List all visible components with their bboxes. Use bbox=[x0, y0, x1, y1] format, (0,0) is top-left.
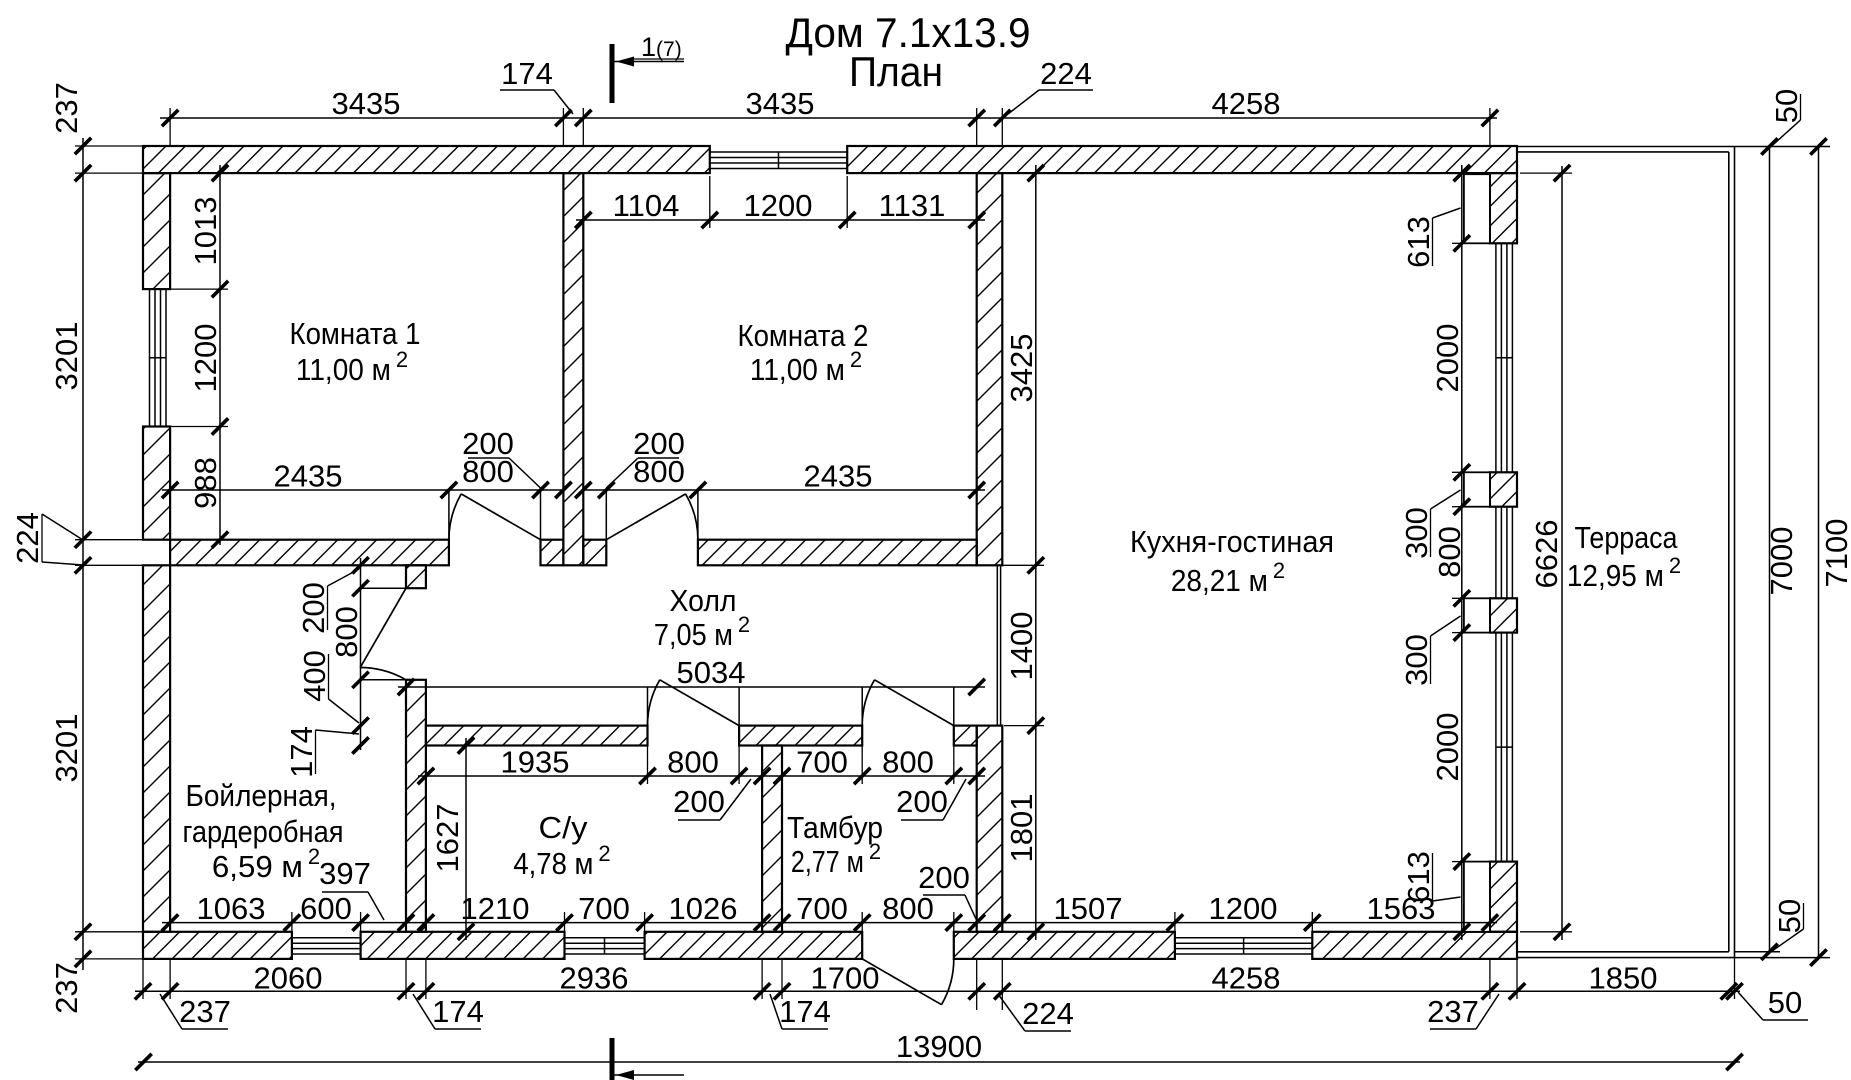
bottom inner chain tick x=564.5 bbox=[556, 914, 572, 930]
boiler door vertical chain line bbox=[360, 558, 362, 750]
kitchen left chain tick y=725.6 bbox=[1028, 717, 1044, 733]
window left wall 1200 bbox=[149, 289, 151, 426]
svg-text:4258: 4258 bbox=[1212, 961, 1281, 996]
terrace bottom extension line upper bbox=[1735, 951, 1781, 953]
room2 window chain tick x=709.8 bbox=[702, 212, 718, 228]
tick 7000 line bottom bbox=[1761, 944, 1777, 960]
svg-text:200: 200 bbox=[296, 582, 331, 634]
bottom outer chain tick x=425.9 bbox=[418, 983, 434, 999]
exterior bottom wall seg 5 (kitchen window-right) bbox=[1312, 932, 1517, 959]
door tambur exterior swing arc bbox=[942, 959, 954, 1005]
S/U height chain line bbox=[465, 738, 467, 940]
svg-text:3201: 3201 bbox=[49, 714, 84, 783]
svg-text:1935: 1935 bbox=[501, 745, 570, 780]
window kitchen right 2000 lower divider bbox=[1496, 746, 1513, 748]
bottom inner chain tick x=406 bbox=[398, 914, 414, 930]
interior middle wall segment B (room2/holl-kitchen) bbox=[698, 540, 977, 566]
svg-text:1026: 1026 bbox=[669, 891, 738, 926]
top chain tick x=583.3 bbox=[575, 110, 591, 126]
svg-text:2936: 2936 bbox=[560, 961, 629, 996]
bottom outer chain tick x=1517 bbox=[1509, 983, 1525, 999]
house right wall bottom column 613 bbox=[1490, 862, 1517, 932]
door tambur-inner leaf bbox=[874, 680, 953, 726]
door boiler jamb lines bbox=[361, 587, 407, 589]
left chain tick y=539.7 bbox=[75, 532, 91, 548]
door tambur exterior leaf bbox=[862, 959, 941, 1005]
boiler chain tick y=745.5 bbox=[352, 737, 368, 753]
terrace bottom wall inner line bbox=[1517, 951, 1729, 953]
right wall lower 300 column inner face box bbox=[1464, 598, 1490, 632]
right window chain tick y=598.3 bbox=[1454, 590, 1470, 606]
svg-text:988: 988 bbox=[188, 457, 223, 509]
svg-text:1104: 1104 bbox=[613, 188, 680, 223]
svg-text:800: 800 bbox=[462, 454, 514, 489]
interior middle wall stub left of room2 door bbox=[583, 540, 606, 566]
bottom outer chain tick x=1728.8 bbox=[1721, 983, 1737, 999]
left window chain tick y=173.1 bbox=[212, 165, 228, 181]
bottom inner chain tick x=1174.9 bbox=[1167, 914, 1183, 930]
svg-text:4258: 4258 bbox=[1212, 86, 1281, 121]
svg-text:Бойлерная,: Бойлерная, bbox=[186, 778, 337, 813]
top chain extension lines bbox=[169, 108, 171, 146]
window S/U bottom divider bbox=[604, 938, 606, 954]
left chain extension lines bbox=[75, 145, 143, 147]
section mark top arrow line bbox=[614, 61, 684, 63]
svg-text:174: 174 bbox=[779, 994, 831, 1029]
exterior bottom wall seg 3 (S/U-tambur) bbox=[645, 932, 863, 959]
svg-text:1210: 1210 bbox=[461, 891, 530, 926]
svg-text:Комната 1: Комната 1 bbox=[290, 316, 421, 351]
left chain tick y=565.3 bbox=[75, 557, 91, 573]
right window chain tick y=472.3 bbox=[1454, 464, 1470, 480]
svg-text:1627: 1627 bbox=[430, 804, 465, 873]
svg-text:1700: 1700 bbox=[811, 961, 880, 996]
left window chain tick y=289.1 bbox=[212, 281, 228, 297]
bottom inner chain tick x=1489.9 bbox=[1482, 914, 1498, 930]
svg-text:6626: 6626 bbox=[1529, 520, 1564, 589]
bottom outer chain tick x=1489.9 bbox=[1482, 983, 1498, 999]
S/U-tambur doors chain tick x=862.2 bbox=[854, 768, 870, 784]
exterior top wall left part (rooms 1-2) bbox=[143, 146, 710, 173]
left window chain tick y=426.5 bbox=[212, 418, 228, 434]
room2 window chain tick x=976.7 bbox=[969, 212, 985, 228]
bottom outer chain tick x=782 bbox=[774, 983, 790, 999]
svg-text:1801: 1801 bbox=[1004, 794, 1039, 863]
boiler chain tick y=565.3 bbox=[352, 557, 368, 573]
room2 door dim line 2435 bbox=[583, 489, 985, 491]
svg-text:3435: 3435 bbox=[332, 86, 401, 121]
boiler chain tick y=588.2 bbox=[352, 580, 368, 596]
top chain tick x=1489.9 bbox=[1482, 110, 1498, 126]
interior wall S/U/tambur bbox=[762, 746, 782, 932]
svg-text:2060: 2060 bbox=[254, 961, 323, 996]
room1 door dim line 2435 bbox=[162, 489, 563, 491]
S/U top wall bbox=[426, 726, 648, 746]
svg-text:800: 800 bbox=[882, 891, 934, 926]
door tambur-inner swing arc bbox=[862, 680, 874, 726]
section mark top label underline bbox=[633, 58, 684, 60]
holl width dim line 5034 bbox=[398, 686, 985, 688]
left chain tick y=173.1 bbox=[75, 165, 91, 181]
bottom outer dim chain line bbox=[135, 990, 1740, 992]
terrace top dim line bbox=[1735, 146, 1831, 148]
6626 extension lines bbox=[1520, 172, 1572, 174]
svg-text:50: 50 bbox=[1772, 899, 1807, 933]
S/U-tambur doors chain tick x=762.1 bbox=[754, 768, 770, 784]
bottom inner chain tick x=1002.3 bbox=[994, 914, 1010, 930]
top chain tick x=563.4 bbox=[555, 110, 571, 126]
svg-text:1013: 1013 bbox=[188, 197, 223, 266]
section mark top arrowhead bbox=[616, 57, 634, 67]
right wall top column inner face box bbox=[1464, 174, 1490, 243]
door boiler leaf bbox=[360, 588, 406, 667]
svg-text:800: 800 bbox=[633, 454, 685, 489]
door tambur exterior jamb lines bbox=[861, 932, 863, 959]
exterior bottom wall seg 1 (boiler left) bbox=[143, 932, 292, 959]
interior middle wall segment A (room1 bottom) bbox=[170, 540, 449, 566]
svg-text:1200: 1200 bbox=[1209, 891, 1278, 926]
svg-text:224: 224 bbox=[1040, 56, 1092, 91]
svg-text:700: 700 bbox=[796, 891, 848, 926]
svg-text:237: 237 bbox=[179, 994, 231, 1029]
bottom outer chain tick x=762.1 bbox=[754, 983, 770, 999]
svg-text:13900: 13900 bbox=[896, 1029, 982, 1064]
bottom inner chain tick x=953.8 bbox=[946, 914, 962, 930]
exterior left wall below window bbox=[143, 427, 170, 540]
svg-text:800: 800 bbox=[882, 745, 934, 780]
kitchen right window chain line bbox=[1461, 165, 1463, 940]
right wall bottom column inner face box bbox=[1464, 862, 1490, 932]
kitchen left vertical chain line bbox=[1035, 165, 1037, 940]
right wall upper 300 column inner face box bbox=[1464, 472, 1490, 506]
bottom inner chain tick x=425.9 bbox=[418, 914, 434, 930]
svg-text:Холл: Холл bbox=[670, 583, 737, 618]
bottom inner chain tick x=644.6 bbox=[636, 914, 652, 930]
room2 window chain tick x=583.3 bbox=[575, 212, 591, 228]
exterior left wall lower section bbox=[143, 565, 170, 932]
terrace bottom wall outer line bbox=[1517, 957, 1735, 959]
kitchen left chain tick y=931.8 bbox=[1028, 924, 1044, 940]
svg-text:7100: 7100 bbox=[1819, 519, 1851, 588]
bottom inner chain tick x=782 bbox=[774, 914, 790, 930]
bottom outer chain tick x=976.7 bbox=[969, 983, 985, 999]
S/U-tambur doors chain tick x=976.7 bbox=[969, 768, 985, 784]
svg-text:237: 237 bbox=[49, 82, 84, 134]
door S/U jamb lines bbox=[647, 687, 649, 726]
window kitchen right 2000 upper divider bbox=[1496, 357, 1513, 359]
terrace inner height chain line 6626 bbox=[1561, 166, 1563, 940]
right window chain tick y=632.6 bbox=[1454, 624, 1470, 640]
holl-kitchen open portal line 1 bbox=[996, 565, 998, 725]
svg-text:Комната 2: Комната 2 bbox=[738, 318, 869, 353]
svg-text:237: 237 bbox=[1427, 994, 1479, 1029]
svg-text:200: 200 bbox=[673, 784, 725, 819]
window boiler bottom 600 bbox=[292, 937, 361, 939]
bottom inner chain tick x=170.1 bbox=[162, 914, 178, 930]
svg-text:2435: 2435 bbox=[274, 459, 343, 494]
svg-text:1131: 1131 bbox=[879, 188, 946, 223]
svg-text:700: 700 bbox=[796, 745, 848, 780]
svg-text:Кухня-гостиная: Кухня-гостиная bbox=[1130, 524, 1334, 559]
terrace right wall outer line bbox=[1734, 147, 1736, 958]
window kitchen bottom divider bbox=[1243, 938, 1245, 954]
svg-text:7000: 7000 bbox=[1764, 527, 1799, 596]
exterior left wall above window bbox=[143, 173, 170, 289]
right window chain extension lines bbox=[1452, 242, 1468, 244]
door S/U leaf bbox=[660, 680, 739, 726]
svg-text:1400: 1400 bbox=[1004, 612, 1039, 681]
section mark bottom arrow line bbox=[614, 1074, 684, 1076]
S/U-tambur doors chain tick x=425.9 bbox=[418, 768, 434, 784]
svg-text:300: 300 bbox=[1399, 634, 1434, 686]
bottom outer chain extension lines bbox=[142, 960, 144, 999]
boiler chain tick y=679.8 bbox=[352, 672, 368, 688]
tick 7100 line bottom bbox=[1810, 949, 1826, 965]
door S/U swing arc bbox=[648, 680, 660, 726]
svg-text:Терраса: Терраса bbox=[1575, 520, 1679, 555]
terrace top wall outer line bbox=[1517, 146, 1735, 148]
right window chain tick y=243.3 bbox=[1454, 235, 1470, 251]
svg-text:200: 200 bbox=[918, 860, 970, 895]
svg-text:800: 800 bbox=[329, 606, 364, 658]
interior wall tambur/kitchen lower bbox=[977, 726, 1003, 932]
left outer dim chain line bbox=[82, 138, 84, 970]
window S/U bottom 700 bbox=[565, 937, 645, 939]
S/U-tambur doors chain tick x=782.0 bbox=[774, 768, 790, 784]
svg-text:1563: 1563 bbox=[1367, 891, 1436, 926]
svg-text:174: 174 bbox=[432, 994, 484, 1029]
door room2 leaf bbox=[606, 494, 685, 540]
kitchen left chain extension lines bbox=[1004, 172, 1044, 174]
terrace bottom extension line lower bbox=[1735, 957, 1831, 959]
window kitchen bottom 1200 bbox=[1175, 937, 1312, 939]
right window chain tick y=861.6 bbox=[1454, 853, 1470, 869]
door room1 swing arc bbox=[449, 494, 461, 540]
S/U-tambur doors chain tick x=739.1 bbox=[731, 768, 747, 784]
terrace top wall inner line bbox=[1517, 151, 1729, 153]
section mark bottom bar bbox=[610, 1038, 615, 1080]
window kitchen right 800 middle bbox=[1495, 507, 1497, 599]
house right wall top column 613 bbox=[1490, 173, 1517, 243]
holl-kitchen open portal line 2 bbox=[1000, 565, 1002, 725]
svg-text:174: 174 bbox=[284, 726, 319, 778]
S/U tambur doors dim line bbox=[418, 775, 985, 777]
svg-text:200: 200 bbox=[896, 784, 948, 819]
right window chain tick y=506.7 bbox=[1454, 499, 1470, 515]
svg-text:50: 50 bbox=[1769, 89, 1804, 123]
svg-text:613: 613 bbox=[1401, 216, 1436, 268]
room2 window chain line bbox=[576, 219, 985, 221]
S/U door jamb extension lines bbox=[647, 746, 649, 785]
svg-text:2000: 2000 bbox=[1430, 324, 1465, 393]
house right wall middle column 300 lower bbox=[1490, 598, 1517, 632]
left chain tick y=146 bbox=[75, 138, 91, 154]
left chain tick y=931.8 bbox=[75, 924, 91, 940]
svg-text:300: 300 bbox=[1399, 507, 1434, 559]
bottom inner chain tick x=762.1 bbox=[754, 914, 770, 930]
svg-text:1200: 1200 bbox=[744, 188, 813, 223]
interior middle wall stub right of room1 door bbox=[541, 540, 564, 566]
exterior bottom wall seg 4 (tambur-kitchen window) bbox=[954, 932, 1175, 959]
door room1 jamb lines bbox=[448, 490, 450, 540]
S/U-tambur doors chain tick x=953.8 bbox=[946, 768, 962, 784]
svg-text:С/у: С/у bbox=[539, 810, 589, 845]
door room2 swing arc bbox=[686, 494, 698, 540]
bottom outer chain tick x=1734.5 bbox=[1726, 983, 1742, 999]
svg-text:174: 174 bbox=[501, 56, 553, 91]
svg-text:3435: 3435 bbox=[746, 86, 815, 121]
door room1 leaf bbox=[461, 494, 540, 540]
bottom inner chain tick x=360.6 bbox=[352, 914, 368, 930]
room2 window chain extension lines bbox=[709, 176, 711, 228]
tick 7100 line top bbox=[1810, 138, 1826, 154]
bottom outer chain tick x=143 bbox=[135, 983, 151, 999]
kitchen left chain tick y=565.3 bbox=[1028, 557, 1044, 573]
bottom inner chain tick x=862.2 bbox=[854, 914, 870, 930]
svg-text:50: 50 bbox=[1768, 985, 1802, 1020]
7000 dim line right bbox=[1769, 147, 1771, 952]
svg-text:План: План bbox=[849, 48, 943, 95]
7100 dim line right bbox=[1818, 147, 1820, 959]
S/U-tambur top wall stub with tambur left wall head bbox=[739, 726, 862, 746]
bottom inner chain tick x=1312.3 bbox=[1304, 914, 1320, 930]
svg-text:224: 224 bbox=[10, 512, 45, 564]
window kitchen right 2000 lower bbox=[1495, 633, 1497, 862]
right window chain tick y=173.1 bbox=[1454, 165, 1470, 181]
section mark bottom arrowhead bbox=[616, 1070, 634, 1080]
bottom outer chain tick x=170.1 bbox=[162, 983, 178, 999]
interior wall room1/room2 bbox=[563, 173, 583, 565]
S/U-tambur doors chain tick x=647.5 bbox=[639, 768, 655, 784]
door tambur-inner jamb lines bbox=[861, 687, 863, 726]
top dimension chain line bbox=[160, 117, 1497, 119]
bottom inner chain tick x=976.7 bbox=[969, 914, 985, 930]
window left wall divider bbox=[150, 357, 167, 359]
svg-text:600: 600 bbox=[300, 891, 352, 926]
door room2 jamb lines bbox=[605, 490, 607, 540]
window room2 top divider bbox=[778, 152, 780, 169]
kitchen left chain tick y=173.1 bbox=[1028, 165, 1044, 181]
bottom inner chain extension lines bbox=[291, 912, 293, 933]
tick 7000 line top bbox=[1761, 138, 1777, 154]
exterior bottom wall seg 2 (boiler-S/U) bbox=[361, 932, 565, 959]
svg-text:800: 800 bbox=[667, 745, 719, 780]
door boiler swing arc bbox=[360, 668, 406, 680]
svg-text:1200: 1200 bbox=[188, 324, 223, 393]
bottom outer chain tick x=406 bbox=[398, 983, 414, 999]
left window chain extension lines bbox=[168, 288, 228, 290]
bottom outer chain tick x=1002.3 bbox=[994, 983, 1010, 999]
top chain tick x=1002.3 bbox=[994, 110, 1010, 126]
svg-text:800: 800 bbox=[1432, 526, 1467, 578]
room2 window chain tick x=847.2 bbox=[839, 212, 855, 228]
window room2 top 1200 bbox=[710, 151, 847, 153]
svg-text:3425: 3425 bbox=[1004, 334, 1039, 403]
boiler room right wall stub above door bbox=[406, 565, 426, 588]
bottom inner dim chain line bbox=[162, 922, 1497, 924]
svg-text:237: 237 bbox=[49, 962, 84, 1014]
right window chain tick y=931.8 bbox=[1454, 924, 1470, 940]
left window chain line bbox=[219, 165, 221, 545]
svg-text:700: 700 bbox=[578, 891, 630, 926]
section mark top bar bbox=[610, 44, 615, 103]
left chain tick y=958.9 bbox=[75, 951, 91, 967]
bottom inner chain tick x=291.9 bbox=[284, 914, 300, 930]
terrace right wall inner line bbox=[1728, 152, 1730, 952]
svg-text:5034: 5034 bbox=[677, 655, 746, 690]
svg-text:2000: 2000 bbox=[1430, 713, 1465, 782]
svg-text:3201: 3201 bbox=[49, 322, 84, 391]
svg-text:1507: 1507 bbox=[1054, 891, 1123, 926]
svg-text:1850: 1850 bbox=[1589, 961, 1658, 996]
boiler chain tick y=725.6 bbox=[352, 717, 368, 733]
exterior top wall right part (room2-kitchen) bbox=[847, 146, 1517, 173]
svg-text:1063: 1063 bbox=[197, 891, 266, 926]
svg-text:2435: 2435 bbox=[804, 459, 873, 494]
interior wall room2/kitchen upper bbox=[977, 173, 1003, 565]
tambur top wall stub right of door bbox=[954, 726, 977, 746]
window kitchen right 2000 upper bbox=[1495, 243, 1497, 472]
svg-text:397: 397 bbox=[319, 856, 371, 891]
overall dim line 13900 bbox=[138, 1061, 1740, 1063]
top chain tick x=976.7 bbox=[969, 110, 985, 126]
boiler room right wall below door bbox=[406, 680, 426, 932]
svg-text:224: 224 bbox=[1022, 996, 1074, 1031]
svg-text:400: 400 bbox=[297, 650, 332, 702]
house right wall middle column 300 upper bbox=[1490, 472, 1517, 506]
top chain tick x=170.1 bbox=[162, 110, 178, 126]
left window chain tick y=539.7 bbox=[212, 532, 228, 548]
